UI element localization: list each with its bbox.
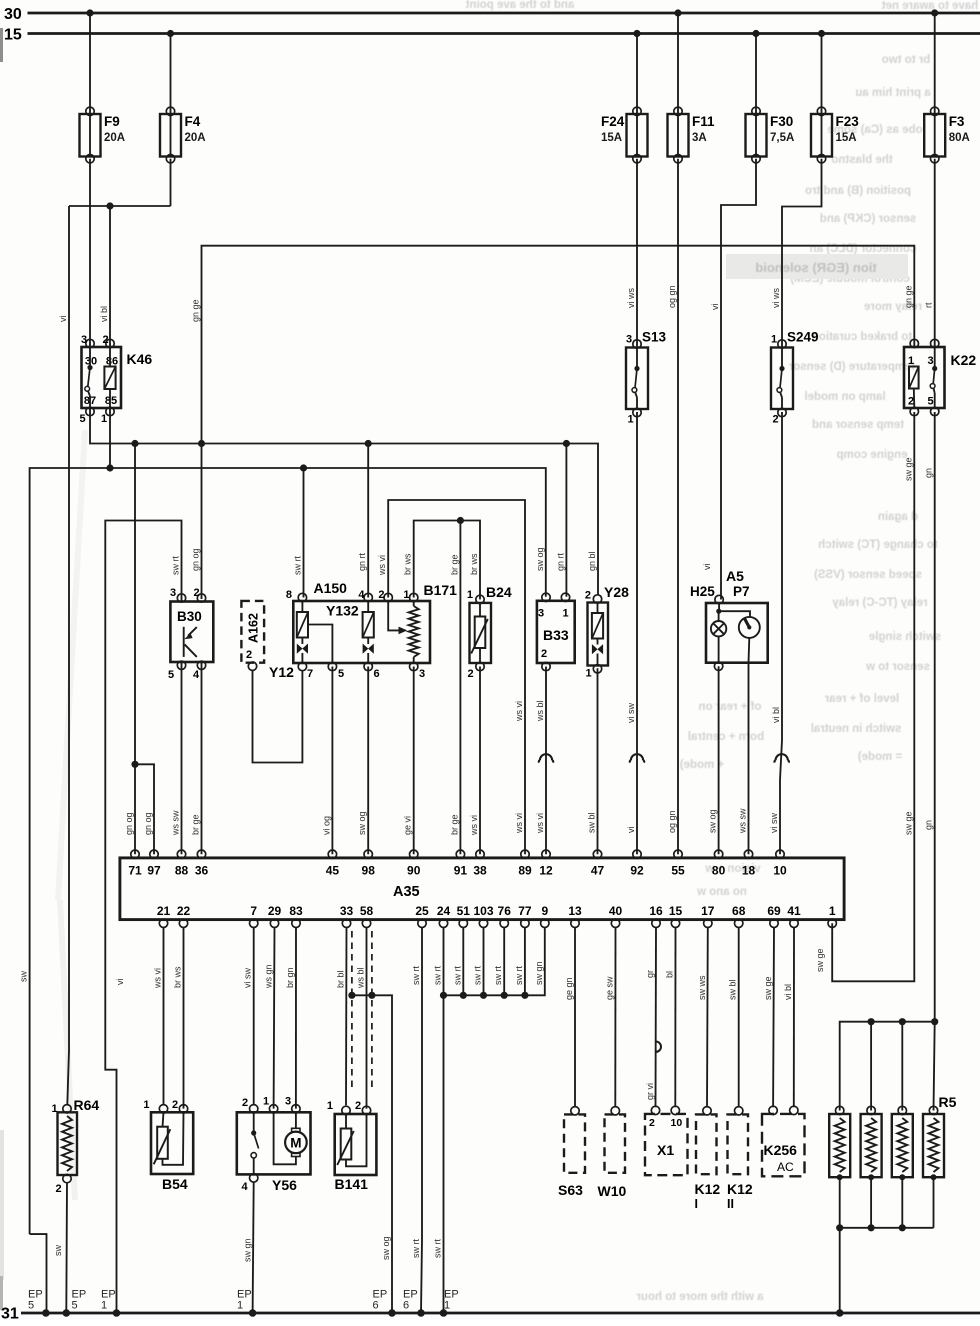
svg-text:1: 1 [327,1100,333,1112]
svg-text:br ge: br ge [191,814,201,835]
svg-text:og gn: og gn [667,285,677,308]
svg-text:the blastno: the blastno [831,154,892,166]
svg-text:12: 12 [539,864,553,878]
svg-text:born + central: born + central [688,731,764,743]
svg-text:ws vi: ws vi [377,555,387,576]
svg-text:level of + rear: level of + rear [824,693,899,705]
svg-text:2: 2 [242,1097,248,1109]
svg-text:gr vi: gr vi [645,1083,655,1100]
svg-text:15: 15 [4,27,22,44]
svg-text:speed sensor (VSS): speed sensor (VSS) [814,569,922,581]
svg-text:1: 1 [467,589,473,601]
svg-text:sw rt: sw rt [514,966,524,985]
svg-text:br ws: br ws [173,966,183,988]
svg-text:ws sw: ws sw [171,810,181,836]
svg-text:S63: S63 [558,1182,583,1198]
svg-text:22: 22 [177,904,191,918]
svg-text:F23: F23 [836,114,860,129]
svg-text:vi ws: vi ws [626,288,636,308]
svg-text:temperature (D) sensor: temperature (D) sensor [788,361,915,373]
svg-text:R5: R5 [939,1094,957,1110]
svg-text:1: 1 [52,1103,58,1115]
svg-text:B54: B54 [162,1176,188,1192]
svg-text:25: 25 [415,904,429,918]
svg-text:rt: rt [924,302,934,308]
svg-text:gn og: gn og [191,548,201,571]
svg-text:d again: d again [878,511,918,523]
svg-text:II: II [727,1197,734,1211]
svg-text:F9: F9 [104,114,120,129]
svg-text:sw rt: sw rt [473,966,483,985]
svg-text:33: 33 [340,904,354,918]
svg-text:3A: 3A [692,132,707,144]
svg-text:71: 71 [128,864,142,878]
svg-text:vi bl: vi bl [783,984,793,1000]
svg-text:X1: X1 [657,1142,674,1158]
svg-text:3: 3 [285,1096,291,1108]
svg-text:80A: 80A [949,132,970,144]
svg-text:sw bl: sw bl [587,812,597,833]
svg-text:2: 2 [56,1183,62,1195]
svg-text:to braked curation: to braked curation [812,331,912,343]
svg-text:br ge: br ge [449,814,459,835]
svg-text:15A: 15A [836,132,857,144]
svg-text:1: 1 [101,413,107,425]
svg-text:5: 5 [168,669,174,681]
svg-text:br ws: br ws [469,553,479,575]
svg-text:switch single: switch single [869,631,941,643]
svg-text:bl: bl [665,971,675,978]
svg-text:18: 18 [742,864,756,878]
svg-text:S249: S249 [787,330,819,345]
svg-text:I: I [695,1197,698,1211]
svg-text:lamp on model: lamp on model [804,391,885,403]
svg-text:20A: 20A [104,132,125,144]
svg-text:M: M [290,1136,301,1151]
svg-text:40: 40 [609,904,623,918]
svg-text:24: 24 [437,904,451,918]
svg-text:vi: vi [702,564,712,571]
svg-text:91: 91 [454,864,468,878]
svg-text:2: 2 [773,414,779,426]
svg-text:sw ws: sw ws [697,975,707,1000]
svg-text:sw rt: sw rt [171,556,181,575]
svg-text:3: 3 [419,668,425,680]
svg-text:2: 2 [541,648,547,660]
svg-text:13: 13 [568,904,582,918]
svg-text:gn bl: gn bl [587,551,597,571]
svg-text:sw: sw [53,1245,63,1257]
svg-text:ge gn: ge gn [564,977,574,1000]
svg-text:sensor (CKP) and: sensor (CKP) and [820,213,917,225]
svg-text:20A: 20A [185,132,206,144]
svg-text:P7: P7 [733,584,750,599]
svg-text:A5: A5 [726,568,744,584]
svg-text:88: 88 [175,864,189,878]
svg-text:41: 41 [787,904,801,918]
svg-text:+ mode): + mode) [680,759,725,771]
svg-text:31: 31 [1,1306,19,1322]
svg-text:85: 85 [105,395,117,407]
svg-text:1: 1 [143,1099,149,1111]
svg-text:7: 7 [250,904,257,918]
svg-text:vi: vi [58,316,68,323]
svg-text:vi: vi [710,304,720,311]
svg-text:gn: gn [924,468,934,478]
svg-text:51: 51 [457,904,471,918]
svg-text:B30: B30 [177,609,202,624]
svg-text:9: 9 [541,904,548,918]
svg-text:tion (EGR) solenoid: tion (EGR) solenoid [755,260,876,275]
svg-text:A162: A162 [247,613,261,643]
svg-text:38: 38 [473,864,487,878]
svg-text:3: 3 [928,355,934,367]
svg-text:br ws: br ws [403,553,413,575]
svg-text:3: 3 [538,608,544,620]
svg-text:K22: K22 [951,352,977,368]
svg-text:2: 2 [246,649,252,661]
svg-text:5: 5 [928,396,934,408]
svg-text:3: 3 [170,587,176,599]
svg-text:92: 92 [630,864,644,878]
svg-text:Y132: Y132 [326,603,359,619]
svg-text:A35: A35 [393,884,420,900]
svg-text:ws vi: ws vi [514,701,524,722]
svg-text:R64: R64 [74,1097,100,1113]
svg-text:F11: F11 [692,114,715,129]
svg-text:gn og: gn og [124,812,134,835]
svg-text:6: 6 [374,668,380,680]
svg-text:15: 15 [669,904,683,918]
svg-text:6: 6 [403,1300,409,1312]
svg-text:1: 1 [563,608,569,620]
svg-text:B171: B171 [424,582,458,598]
svg-text:S13: S13 [642,330,667,345]
svg-text:2: 2 [194,587,200,599]
svg-text:sw ge: sw ge [903,457,913,481]
svg-text:vi: vi [626,827,636,834]
svg-text:7,5A: 7,5A [770,132,794,144]
svg-text:7: 7 [307,668,313,680]
svg-text:80: 80 [712,864,726,878]
svg-text:1: 1 [237,1300,243,1312]
svg-text:1: 1 [829,904,836,918]
svg-text:10: 10 [671,1117,683,1129]
svg-text:gn og: gn og [143,812,153,835]
svg-text:5: 5 [28,1300,34,1312]
svg-text:2: 2 [355,1100,361,1112]
svg-text:1: 1 [263,1096,269,1108]
svg-text:ws vi: ws vi [469,815,479,836]
svg-text:switch in neutral: switch in neutral [811,723,902,735]
svg-text:sw rt: sw rt [411,1239,421,1258]
svg-text:sw rt: sw rt [493,966,503,985]
svg-text:gn rt: gn rt [555,552,565,571]
svg-text:69: 69 [767,904,781,918]
svg-text:sw rt: sw rt [293,556,303,575]
svg-text:a with the more to hour: a with the more to hour [636,1291,764,1303]
svg-text:ws sw: ws sw [738,808,748,834]
svg-text:2: 2 [585,590,591,602]
svg-text:B33: B33 [543,627,569,643]
svg-text:8: 8 [286,589,292,601]
svg-text:K12: K12 [695,1181,721,1197]
svg-text:Y28: Y28 [604,584,629,600]
svg-text:5: 5 [80,413,86,425]
svg-text:sw rt: sw rt [433,1239,443,1258]
svg-text:sw ge: sw ge [763,976,773,1000]
svg-text:1: 1 [586,668,592,680]
svg-text:vi sw: vi sw [769,813,779,834]
svg-text:sw og: sw og [535,547,545,571]
svg-text:gr: gr [645,970,655,978]
svg-text:3: 3 [626,334,632,346]
svg-text:5: 5 [72,1300,78,1312]
svg-text:sw og: sw og [357,811,367,835]
svg-text:ws bl: ws bl [356,967,366,989]
svg-text:F3: F3 [949,114,965,129]
svg-text:vi bl: vi bl [99,306,109,322]
svg-text:and to the ave point: and to the ave point [466,0,575,11]
svg-text:sw ge: sw ge [815,948,825,972]
svg-text:ws vi: ws vi [153,968,163,989]
svg-text:1: 1 [101,1300,107,1312]
svg-text:45: 45 [326,864,340,878]
svg-text:temp sensor and: temp sensor and [812,419,904,431]
svg-text:sensor to w: sensor to w [866,661,930,673]
svg-text:= mode): = mode) [858,751,903,763]
svg-text:og gn: og gn [667,810,677,833]
svg-text:98: 98 [362,864,376,878]
svg-text:1: 1 [628,414,634,426]
svg-text:4: 4 [242,1181,249,1193]
svg-text:Y12: Y12 [269,664,294,680]
svg-text:47: 47 [591,864,605,878]
svg-text:29: 29 [268,904,282,918]
svg-text:6: 6 [373,1300,379,1312]
svg-text:1: 1 [771,334,777,346]
svg-text:F30: F30 [770,114,793,129]
svg-text:90: 90 [407,864,421,878]
svg-text:5: 5 [338,668,344,680]
svg-text:83: 83 [289,904,303,918]
svg-text:36: 36 [195,864,209,878]
svg-text:ws vi: ws vi [514,813,524,834]
svg-text:Y56: Y56 [272,1177,297,1193]
svg-text:ge sw: ge sw [605,976,615,1000]
svg-text:K46: K46 [127,351,153,367]
svg-text:97: 97 [147,864,161,878]
svg-text:2: 2 [378,589,384,601]
svg-text:15A: 15A [601,132,622,144]
svg-text:55: 55 [671,864,685,878]
svg-text:sw gn: sw gn [243,1238,253,1262]
svg-text:vi sw: vi sw [243,968,253,989]
svg-text:gn rt: gn rt [357,552,367,571]
svg-text:1: 1 [444,1300,450,1312]
svg-text:sw rt: sw rt [452,966,462,985]
svg-text:vi sw: vi sw [626,703,636,724]
svg-text:engine comp: engine comp [837,449,908,461]
svg-text:77: 77 [518,904,532,918]
svg-text:2: 2 [172,1099,178,1111]
svg-text:10: 10 [773,864,787,878]
svg-text:gn: gn [924,820,934,830]
svg-text:gn ge: gn ge [903,285,913,308]
svg-text:2: 2 [649,1117,655,1129]
svg-text:H25: H25 [690,584,715,599]
svg-text:vi og: vi og [321,816,331,835]
svg-text:sw: sw [19,971,29,983]
svg-text:58: 58 [360,904,374,918]
svg-text:br to two: br to two [882,54,931,66]
svg-text:1: 1 [403,589,409,601]
svg-text:AC: AC [777,1160,794,1174]
svg-text:sw og: sw og [381,1236,391,1260]
svg-text:103: 103 [473,904,493,918]
svg-text:K256: K256 [764,1142,798,1158]
svg-text:21: 21 [157,904,171,918]
svg-text:3: 3 [81,334,87,346]
svg-text:sw rt: sw rt [411,966,421,985]
svg-text:2: 2 [103,334,109,346]
svg-text:sw gn: sw gn [534,961,544,985]
svg-text:vi ws: vi ws [771,288,781,308]
svg-text:B24: B24 [486,584,512,600]
svg-text:F4: F4 [185,114,201,129]
svg-text:30: 30 [4,6,22,23]
svg-text:sw rt: sw rt [433,966,443,985]
svg-text:br gn: br gn [285,967,295,988]
svg-text:ge vi: ge vi [403,816,413,835]
svg-text:1: 1 [908,355,914,367]
svg-text:sw og: sw og [708,809,718,833]
svg-text:to change (TC) switch: to change (TC) switch [818,539,937,551]
svg-text:a print him au: a print him au [855,87,930,99]
svg-text:2: 2 [468,668,474,680]
svg-text:F24: F24 [601,114,625,129]
svg-text:4: 4 [358,589,365,601]
svg-text:no ano w: no ano w [697,886,747,898]
svg-text:17: 17 [701,904,715,918]
svg-text:89: 89 [518,864,532,878]
svg-text:76: 76 [498,904,512,918]
svg-text:A150: A150 [314,580,348,596]
svg-text:gn ge: gn ge [191,299,201,322]
svg-text:K12: K12 [727,1181,753,1197]
svg-text:ws gn: ws gn [264,964,274,989]
svg-text:br bl: br bl [336,970,346,988]
svg-text:sw bl: sw bl [728,979,738,1000]
svg-text:sw ge: sw ge [903,811,913,835]
svg-text:br ge: br ge [449,554,459,575]
svg-text:16: 16 [649,904,663,918]
svg-text:vi bl: vi bl [771,707,781,723]
svg-text:B141: B141 [335,1176,369,1192]
svg-text:relay (TC-C) relay: relay (TC-C) relay [832,597,928,609]
svg-text:vi: vi [115,979,125,986]
svg-text:W10: W10 [598,1183,627,1199]
svg-text:ws vi: ws vi [535,813,545,834]
svg-text:relay more: relay more [864,301,922,313]
svg-text:4: 4 [193,669,200,681]
svg-text:have to aware net: have to aware net [882,0,979,12]
svg-text:of + rear on: of + rear on [699,701,762,713]
svg-text:ws bl: ws bl [535,700,545,722]
svg-text:68: 68 [732,904,746,918]
